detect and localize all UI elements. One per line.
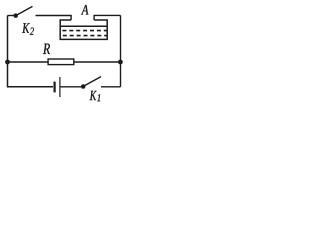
glyph 1 subscript of label K1	[97, 94, 100, 101]
wire battery to switch K1 pivot	[61, 86, 82, 88]
switch K2 lever	[18, 6, 33, 14]
left rail and bottom wire to battery	[8, 16, 54, 87]
battery positive plate (long thin)	[59, 77, 61, 97]
wire K1 contact to bottom-right corner	[101, 86, 121, 88]
glyph K of label K2	[22, 23, 30, 33]
right rail	[120, 15, 122, 86]
junction node dot right	[118, 60, 123, 65]
middle wire left to resistor	[8, 61, 49, 63]
junction node dot left	[5, 60, 10, 65]
resistor R box	[48, 59, 74, 65]
glyph K of label K1	[90, 91, 97, 100]
middle wire resistor to right rail	[74, 61, 121, 63]
liquid surface line in tank A	[60, 25, 107, 27]
wire tank A right terminal riser and top-right wire to right rail	[94, 15, 120, 20]
glyph 2 subscript of label K2	[30, 28, 34, 35]
glyph A label	[81, 5, 89, 15]
liquid dashed line 2	[63, 35, 107, 37]
switch K1 lever	[85, 77, 101, 86]
wire top-left from corner to switch K2 pivot	[8, 15, 15, 17]
glyph R label	[43, 44, 50, 54]
battery negative plate (short thick)	[53, 82, 55, 93]
liquid dashed line 1	[62, 30, 107, 32]
switch K2 pivot dot	[13, 13, 18, 18]
tank A outline: left rim, left wall, bottom, right wall, right rim	[60, 20, 107, 39]
wire top middle from K2 to tank A left terminal riser	[36, 16, 72, 21]
switch K1 pivot dot	[81, 84, 86, 89]
